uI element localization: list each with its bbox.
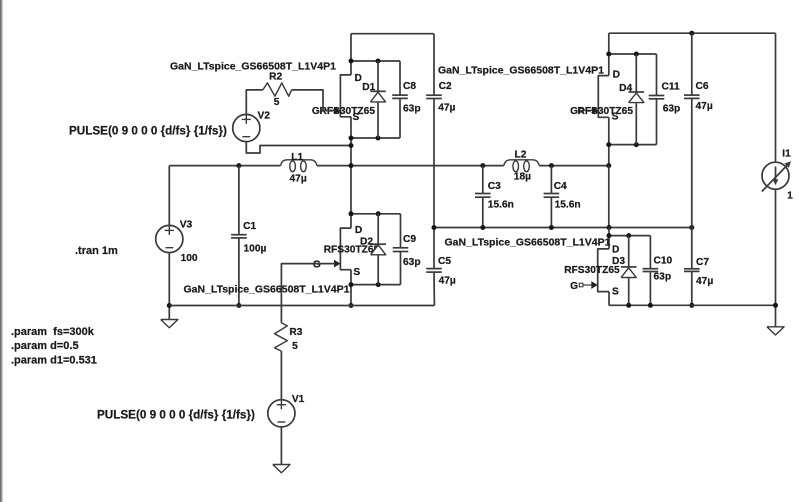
capacitor C4 leads: [550, 166, 552, 194]
wire from mid rail down to V3: [168, 166, 170, 225]
wire right column from mid rail down to U3 cell: [608, 166, 610, 228]
svg-text:C6: C6: [696, 81, 709, 92]
svg-text:C3: C3: [488, 181, 501, 192]
capacitor C3 plates: [475, 193, 491, 195]
transistor U3 gate arrow: [591, 281, 597, 289]
svg-text:R2: R2: [269, 72, 282, 83]
junction at (378,138): [376, 136, 381, 141]
diode D2 symbol: [370, 243, 386, 245]
svg-text:V1: V1: [292, 394, 305, 405]
wire right column upper segment: [608, 33, 610, 75]
svg-text:D: D: [613, 70, 620, 81]
junction at (351,305.5): [349, 303, 354, 308]
svg-text:L2: L2: [515, 149, 527, 160]
capacitor C11 plates: [649, 95, 665, 97]
wire from V2 plus up to R2: [246, 90, 262, 114]
diode D1 symbol: [370, 90, 386, 92]
svg-text:G: G: [570, 281, 578, 292]
capacitor C1 plates: [231, 234, 247, 236]
current source I1 circle: [762, 162, 789, 189]
wire from mid-right rail down to U3 drain: [608, 228, 610, 249]
capacitor C2 plates: [426, 94, 442, 96]
wire from top-right rail down to I1: [775, 33, 777, 162]
wire source node of U1: [351, 137, 400, 139]
junction at (351,138): [349, 136, 354, 141]
junction at (628.7,235.6): [626, 233, 631, 238]
svg-text:PULSE(0 9 0 0 0 {d/fs} {1/fs}): PULSE(0 9 0 0 0 {d/fs} {1/fs}): [97, 408, 255, 421]
svg-text:D: D: [355, 225, 362, 236]
svg-text:S: S: [612, 287, 619, 298]
junction at (636.3,54): [634, 52, 639, 57]
svg-text:C7: C7: [696, 257, 709, 268]
wire left column from U1 source down to lower cell: [350, 117, 352, 228]
svg-text:GaN_LTspice_GS66508T_L1V4P1: GaN_LTspice_GS66508T_L1V4P1: [445, 236, 611, 248]
wire from V1 minus to ground: [280, 428, 282, 465]
junction at (239,165.6): [236, 163, 241, 168]
wire mid rail right of L2: [539, 165, 609, 167]
svg-text:D1: D1: [362, 82, 375, 93]
svg-text:L1: L1: [291, 152, 303, 163]
junction at (691.8,305.3): [689, 303, 694, 308]
capacitor C1 leads: [238, 166, 240, 235]
junction at (691.8,227.5): [689, 225, 694, 230]
junction at (351,284.6): [349, 282, 354, 287]
current source I1 diagonal arrow: [762, 164, 788, 191]
voltage source V3: [156, 225, 183, 252]
svg-text:RFS30TZ65: RFS30TZ65: [578, 106, 634, 117]
svg-text:R3: R3: [289, 327, 302, 338]
capacitor C2 C5 column upper segment: [433, 34, 435, 95]
junction at (691.8,33.2): [689, 31, 694, 36]
wire from I1 down to ground: [775, 189, 777, 327]
junction at (378,61): [376, 59, 381, 64]
capacitor C6 leads: [691, 33, 693, 95]
svg-text:63p: 63p: [654, 272, 672, 283]
junction at (351,61): [349, 59, 354, 64]
svg-text:V3: V3: [180, 219, 193, 230]
junction at (609,227.5): [607, 225, 612, 230]
wire top-left supply rail: [351, 33, 434, 35]
svg-text:5: 5: [292, 341, 298, 352]
capacitor C4 plates: [544, 193, 560, 195]
ground symbol at V3: [161, 320, 178, 328]
transistor U3 GS66508T lower-right body outline: [598, 249, 609, 292]
wire top-right supply rail: [609, 32, 776, 34]
transistor U2 gate arrow: [334, 260, 340, 268]
svg-text:D2: D2: [360, 237, 373, 248]
current source I1 internal arrow: [775, 167, 777, 181]
svg-text:63p: 63p: [663, 104, 681, 115]
junction at (239,305.5): [236, 303, 241, 308]
capacitor C9 plates: [393, 247, 409, 249]
svg-text:D4: D4: [619, 83, 632, 94]
junction at (351,145.5): [349, 143, 354, 148]
inductor L1 coil: [281, 160, 317, 166]
diode D1 leads: [377, 61, 379, 91]
wire U4 source lead: [608, 117, 610, 144]
junction at (608.8,144.6): [606, 142, 611, 147]
svg-text:100: 100: [181, 253, 198, 264]
capacitor C11 leads: [656, 54, 658, 96]
svg-text:I1: I1: [782, 148, 791, 159]
transistor U4 GS66508T upper-right body outline: [598, 76, 609, 118]
junction at (551.4,165.6): [549, 163, 554, 168]
capacitor C7 leads: [691, 228, 693, 269]
wire left column upper segment: [350, 34, 352, 75]
junction at (775.5,305.3): [773, 303, 778, 308]
svg-text:47µ: 47µ: [696, 276, 713, 287]
wire mid rail between L1 and L2: [317, 165, 504, 167]
ground symbol at I1: [767, 327, 784, 335]
svg-text:15.6n: 15.6n: [555, 200, 581, 211]
diode D2 leads: [377, 214, 379, 244]
svg-text:D3: D3: [612, 256, 625, 267]
wire gate of U2 to R3 branch: [281, 264, 335, 323]
svg-text:47µ: 47µ: [290, 174, 307, 185]
svg-text:C10: C10: [654, 255, 673, 266]
svg-text:15.6n: 15.6n: [488, 200, 514, 211]
diode D4 symbol: [629, 91, 645, 93]
left page border: [0, 0, 2, 502]
capacitor C9 leads: [400, 214, 402, 248]
wire U2 source lead: [350, 270, 352, 306]
svg-text:C1: C1: [243, 221, 256, 232]
diode D3 symbol: [621, 266, 637, 268]
wire C5 bottom lead: [433, 272, 435, 305]
svg-text:1: 1: [787, 191, 793, 202]
svg-text:.tran 1m: .tran 1m: [75, 245, 118, 257]
svg-text:47µ: 47µ: [696, 101, 713, 112]
transistor U2 GS66508T lower-left body outline: [340, 228, 351, 270]
svg-text:C5: C5: [438, 256, 451, 267]
svg-text:47µ: 47µ: [439, 276, 456, 287]
junction at (609,235.6): [607, 233, 612, 238]
junction at (482.8,165.6): [480, 163, 485, 168]
wire U3 source lead: [608, 292, 610, 306]
capacitor C8 plates: [392, 94, 408, 96]
wire C2-C5 column middle segment: [433, 99, 435, 269]
capacitor C6 plates: [684, 94, 700, 96]
svg-text:.param d=0.5: .param d=0.5: [11, 340, 79, 352]
svg-text:47µ: 47µ: [438, 103, 455, 114]
wire from mid rail up to source of U4: [608, 145, 610, 166]
svg-text:18µ: 18µ: [514, 171, 531, 182]
node drain wire of upper-left FET: [351, 60, 400, 62]
junction at (378.2,213.8): [376, 211, 381, 216]
svg-text:63p: 63p: [403, 103, 421, 114]
ground symbol at V1: [273, 465, 290, 473]
wire drain node of U4: [609, 53, 657, 55]
svg-text:5: 5: [274, 97, 280, 108]
capacitor C10 plates: [643, 268, 659, 270]
capacitor C8 leads: [399, 61, 401, 95]
diode D4 leads: [635, 54, 637, 92]
transistor U4 gate arrow: [592, 107, 598, 115]
transistor U1 gate arrow: [334, 107, 340, 115]
junction at (650.4,305.3): [648, 303, 653, 308]
svg-text:.param fs=300k: .param fs=300k: [11, 326, 95, 338]
wire mid rail left of L1: [169, 165, 280, 167]
capacitor C3 leads: [482, 166, 484, 194]
svg-text:.param d1=0.531: .param d1=0.531: [11, 355, 97, 367]
junction at (351,213.8): [349, 211, 354, 216]
svg-text:63p: 63p: [403, 257, 421, 268]
junction at (608.8,54): [606, 52, 611, 57]
wire bottom-left ground rail: [169, 305, 434, 307]
svg-text:G: G: [313, 259, 321, 270]
wire source node of U2: [351, 284, 401, 286]
junction at (378.2,284.6): [376, 282, 381, 287]
junction at (351,165.6): [349, 163, 354, 168]
capacitor C7 plates: [684, 268, 700, 270]
wire from V2 minus to source node of U1: [246, 142, 351, 153]
svg-text:RFS30TZ65: RFS30TZ65: [320, 106, 376, 117]
resistor R2 zigzag: [263, 83, 292, 96]
junction at (551.4,227.5): [549, 225, 554, 230]
svg-text:V2: V2: [258, 110, 271, 121]
junction at (434,227.5): [432, 225, 437, 230]
resistor R3 zigzag: [275, 323, 288, 351]
svg-text:D: D: [355, 73, 362, 84]
wire from R3 down to V1: [280, 351, 282, 399]
wire mid-right rail: [434, 227, 692, 229]
inductor L2 coil: [504, 160, 539, 166]
svg-text:S: S: [353, 267, 360, 278]
wire drain node of U3: [609, 235, 650, 237]
transistor U3 gate stub: [579, 283, 583, 287]
wire drain node of U2: [351, 213, 401, 215]
capacitor C5 plates: [426, 268, 442, 270]
svg-text:D: D: [612, 245, 619, 256]
svg-text:PULSE(0 9 0 0 0 {d/fs} {1/fs}): PULSE(0 9 0 0 0 {d/fs} {1/fs}): [69, 124, 227, 137]
svg-text:100µ: 100µ: [244, 243, 267, 254]
voltage source V1: [268, 400, 295, 427]
svg-text:GaN_LTspice_GS66508T_L1V4P1: GaN_LTspice_GS66508T_L1V4P1: [438, 65, 604, 77]
svg-text:GaN_LTspice_GS66508T_L1V4P1: GaN_LTspice_GS66508T_L1V4P1: [170, 61, 336, 73]
capacitor C10 leads: [649, 236, 651, 269]
transistor U4 gate stub: [580, 109, 584, 113]
svg-text:C4: C4: [554, 181, 567, 192]
junction at (636.3,144.6): [634, 142, 639, 147]
diode D3 leads: [628, 236, 630, 267]
svg-text:C8: C8: [403, 81, 416, 92]
junction at (169.3,305.5): [167, 303, 172, 308]
transistor U1 GS66508T upper-left body outline: [340, 75, 351, 117]
voltage source V2: [233, 114, 260, 141]
wire source node of U4: [609, 144, 657, 146]
junction at (628.7,305.3): [626, 303, 631, 308]
svg-text:GaN_LTspice_GS66508T_L1V4P1: GaN_LTspice_GS66508T_L1V4P1: [184, 284, 350, 296]
wire from V3 minus to ground rail: [168, 253, 170, 319]
svg-text:C9: C9: [403, 234, 416, 245]
wire from R2 to gate of U1: [292, 90, 335, 111]
junction at (482.8,227.5): [480, 225, 485, 230]
wire bottom-right ground rail: [609, 304, 776, 306]
svg-text:C11: C11: [662, 81, 680, 92]
svg-text:C2: C2: [439, 81, 452, 92]
junction at (608.8,165.6): [606, 163, 611, 168]
